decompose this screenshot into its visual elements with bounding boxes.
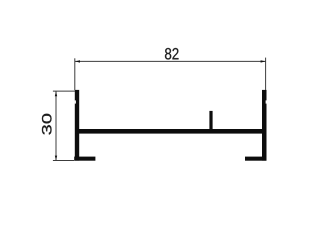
dimension line 82 (75, 60, 266, 62)
arrowhead 82 right (261, 60, 266, 62)
extension line left of 82 (74, 58, 76, 90)
profile left foot (74, 157, 95, 161)
profile left wall (75, 90, 79, 161)
dimension line 30 (55, 91, 57, 160)
extension line top of 30 (53, 90, 75, 92)
extension line bottom of 30 (53, 160, 74, 162)
arrowhead 82 left (75, 60, 80, 62)
arrowhead 30 top (55, 91, 57, 96)
profile right wall (262, 90, 267, 161)
label 82 (165, 48, 179, 59)
arrowhead 30 bottom (55, 156, 57, 161)
label 30 (42, 114, 52, 135)
profile right foot (245, 157, 266, 161)
profile bottom web (75, 129, 266, 134)
extension line right of 82 (265, 58, 267, 90)
notch on left wall outer edge (75, 100, 76, 103)
profile middle tab (209, 111, 212, 131)
notch on right wall outer edge (266, 100, 267, 103)
